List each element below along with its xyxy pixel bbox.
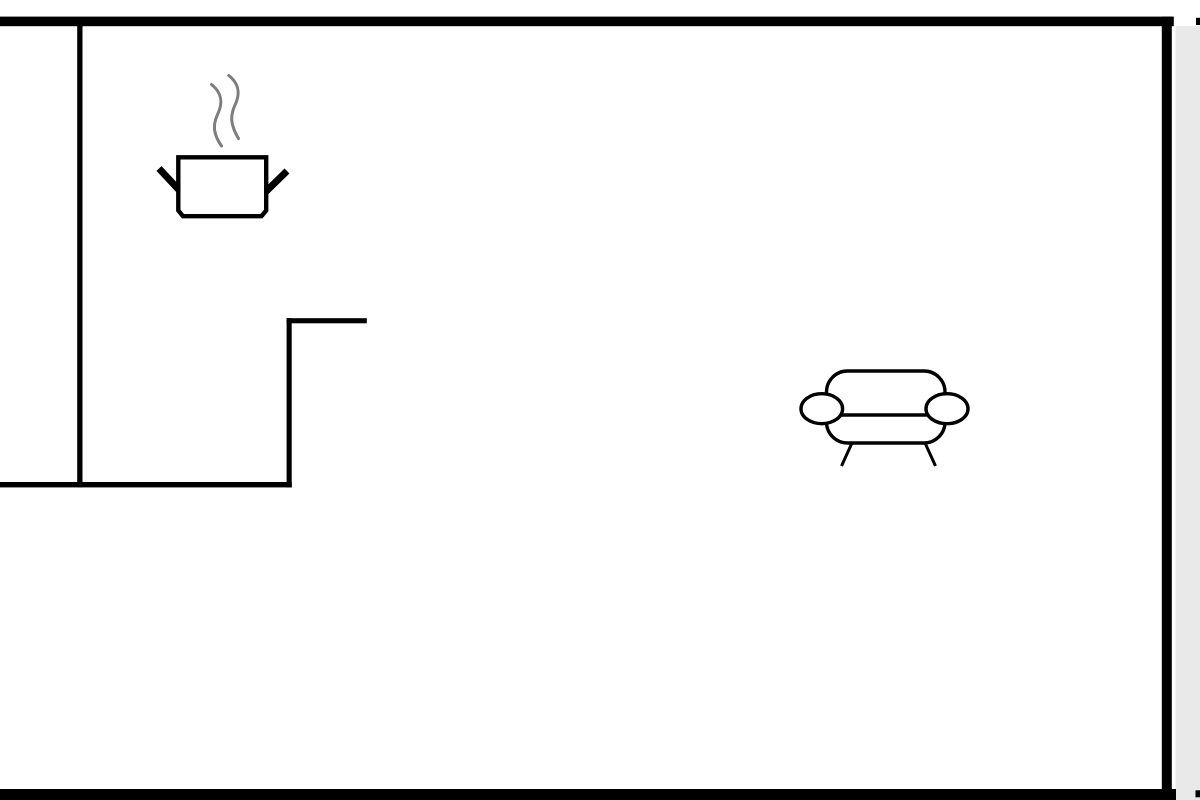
cooking pot body (178, 157, 266, 216)
wall bottom (0, 789, 1176, 800)
wall right (1162, 17, 1172, 800)
steam wisp left (212, 85, 222, 147)
wall top right edge dash (1196, 18, 1200, 25)
scrollbar gray strip right edge (1176, 26, 1200, 800)
sofa body (827, 371, 946, 443)
steam wisp right (229, 76, 239, 139)
pot handle right (266, 171, 287, 192)
wall interior horizontal B (kitchen bottom) (0, 482, 292, 487)
sofa seat line (828, 413, 943, 416)
sofa armrest left (801, 394, 843, 424)
sofa leg right (926, 444, 936, 466)
wall bottom right edge dash (1196, 790, 1200, 797)
sofa leg left (842, 444, 852, 466)
wall top (0, 17, 1174, 27)
sofa armrest right (926, 394, 968, 424)
wall interior vertical C (kitchen right) (287, 318, 292, 487)
wall interior vertical A (kitchen left) (77, 17, 82, 487)
wall interior horizontal stub D (doorway) (287, 318, 367, 323)
pot handle left (159, 169, 180, 192)
